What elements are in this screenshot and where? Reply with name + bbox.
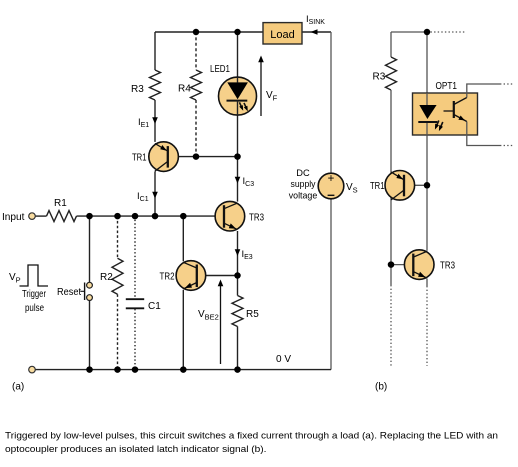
svg-text:VBE2: VBE2 <box>198 309 219 322</box>
svg-text:IE1: IE1 <box>138 117 149 129</box>
svg-text:Load: Load <box>270 29 295 41</box>
svg-text:R2: R2 <box>100 272 113 283</box>
svg-text:VS: VS <box>346 182 358 195</box>
svg-text:LED1: LED1 <box>210 64 230 75</box>
svg-text:C1: C1 <box>148 301 161 312</box>
svg-text:R5: R5 <box>246 309 259 320</box>
svg-text:IE3: IE3 <box>242 249 253 261</box>
svg-text:VF: VF <box>266 90 278 103</box>
svg-text:TR1: TR1 <box>370 181 385 192</box>
svg-text:voltage: voltage <box>289 191 318 201</box>
svg-text:(b): (b) <box>375 382 387 393</box>
svg-text:TR1: TR1 <box>132 153 147 164</box>
svg-text:(a): (a) <box>12 382 24 393</box>
svg-text:TR3: TR3 <box>249 213 264 224</box>
svg-text:R3: R3 <box>131 84 144 95</box>
svg-text:pulse: pulse <box>25 303 44 314</box>
svg-text:+: + <box>328 173 335 185</box>
svg-text:R1: R1 <box>54 198 67 209</box>
svg-text:DC: DC <box>296 168 310 178</box>
svg-text:0 V: 0 V <box>276 354 291 365</box>
svg-text:Input: Input <box>2 212 25 223</box>
svg-text:TR2: TR2 <box>160 272 175 283</box>
svg-text:Trigger: Trigger <box>22 289 47 300</box>
svg-text:ISINK: ISINK <box>306 14 325 26</box>
svg-text:R3: R3 <box>373 72 386 83</box>
svg-text:supply: supply <box>291 179 316 189</box>
svg-text:IC3: IC3 <box>243 176 255 188</box>
svg-text:TR3: TR3 <box>440 261 455 272</box>
svg-text:Reset: Reset <box>57 287 81 298</box>
svg-text:IC1: IC1 <box>137 191 149 203</box>
svg-text:R4: R4 <box>178 84 191 95</box>
svg-text:Triggered by low-level pulses,: Triggered by low-level pulses, this circ… <box>5 429 498 440</box>
svg-text:optocoupler produces an isolat: optocoupler produces an isolated latch i… <box>5 443 267 454</box>
svg-text:VP: VP <box>9 272 21 285</box>
svg-text:OPT1: OPT1 <box>436 81 458 92</box>
